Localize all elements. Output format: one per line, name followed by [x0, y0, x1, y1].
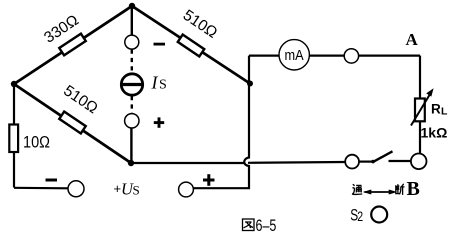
- plus sign above bottom wire: [203, 174, 215, 186]
- svg-text:S: S: [159, 78, 167, 93]
- switch left terminal: [345, 155, 359, 169]
- ammeter mA: [279, 40, 309, 70]
- svg-text:I: I: [151, 73, 159, 93]
- svg-text:10Ω: 10Ω: [23, 134, 50, 152]
- terminal plus Us: [179, 182, 194, 197]
- double arrow: [363, 190, 397, 195]
- wire: plus terminal down to bottom node: [130, 128, 132, 163]
- wire: bottom-left horizontal to minus terminal: [14, 187, 68, 190]
- wire: bottom horizontal right of junction: [248, 161, 345, 164]
- label S2: [350, 207, 358, 225]
- dashed wire Is to plus terminal: [131, 96, 133, 113]
- wire: RL down to terminal B: [419, 121, 421, 154]
- svg-text:A: A: [406, 30, 419, 49]
- svg-text:S: S: [133, 182, 140, 197]
- resistor R 330Ω body: [59, 34, 86, 56]
- resistor 510Ω top body: [178, 35, 204, 57]
- arrow through RL: [411, 93, 431, 126]
- svg-text:mA: mA: [284, 46, 304, 63]
- label 断 (glyph): [396, 184, 405, 195]
- wire: diagonal apex to right node: [132, 6, 250, 84]
- svg-text:6–5: 6–5: [256, 217, 277, 235]
- switch S2 circle: [371, 207, 387, 223]
- minus sign near top terminal: [154, 43, 166, 46]
- resistor 510Ω left body: [59, 112, 85, 134]
- svg-text:+: +: [114, 181, 122, 196]
- plus sign mid: [154, 117, 164, 127]
- node apex: [129, 3, 135, 9]
- caption 6-5: [256, 217, 277, 235]
- wire: right vertical down to RL: [419, 56, 421, 99]
- terminal B: [411, 154, 427, 170]
- svg-text:2: 2: [357, 209, 363, 225]
- wire: bottom main horizontal left of junction: [131, 162, 245, 164]
- label 通 (glyph): [352, 184, 362, 194]
- current source Is: [121, 74, 142, 95]
- resistor RL body: [415, 99, 425, 122]
- terminal bottom of Is: [125, 114, 139, 128]
- node bottom: [128, 160, 134, 166]
- node left: [11, 81, 17, 87]
- wire: diagonal left node to bottom node: [14, 84, 131, 163]
- wire: middle vertical with junction hook: [193, 56, 249, 189]
- svg-text:L: L: [441, 106, 448, 118]
- dashed wire top terminal to Is: [131, 50, 133, 74]
- svg-text:B: B: [407, 178, 420, 200]
- terminal minus Us: [68, 181, 84, 197]
- caption 图 (glyph): [243, 219, 255, 231]
- wire: switch fixed contact stub: [389, 160, 412, 162]
- svg-text:1kΩ: 1kΩ: [421, 125, 448, 141]
- wire: diagonal top-left node to apex: [14, 6, 132, 84]
- wire: top horizontal to mA: [249, 54, 280, 56]
- wire: apex down to top terminal: [131, 6, 133, 36]
- minus sign bottom-left: [46, 179, 58, 182]
- wire: left vertical from node down to corner: [13, 84, 15, 188]
- wire: switch pivot stub: [359, 161, 373, 163]
- terminal top of Is: [125, 35, 139, 49]
- node right: [247, 81, 253, 87]
- resistor 10Ω body: [9, 125, 18, 153]
- svg-text:R: R: [431, 102, 441, 117]
- terminal on top wire: [344, 49, 358, 63]
- label 10Ω: [23, 134, 50, 152]
- switch blade: [373, 151, 393, 162]
- wire: mA to corner A: [309, 54, 420, 56]
